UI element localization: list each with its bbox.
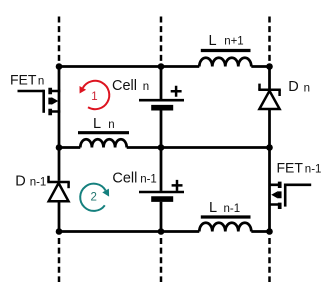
svg-text:1: 1 — [91, 91, 97, 103]
svg-text:FET: FET — [10, 72, 37, 88]
svg-text:2: 2 — [90, 192, 96, 204]
svg-text:FET: FET — [277, 159, 304, 175]
svg-text:n-1: n-1 — [30, 176, 47, 188]
svg-text:n-1: n-1 — [305, 163, 322, 175]
svg-text:n: n — [108, 119, 114, 131]
svg-text:Cell: Cell — [112, 171, 137, 187]
svg-text:n: n — [38, 76, 44, 88]
svg-text:n+1: n+1 — [224, 36, 244, 48]
svg-text:D: D — [15, 173, 25, 189]
svg-text:Cell: Cell — [112, 78, 137, 94]
svg-text:L: L — [209, 200, 217, 216]
svg-text:n-1: n-1 — [224, 203, 241, 215]
svg-text:n: n — [304, 82, 310, 94]
svg-text:L: L — [209, 33, 217, 49]
svg-text:L: L — [93, 116, 101, 132]
svg-text:n: n — [143, 81, 149, 93]
svg-text:D: D — [288, 79, 298, 95]
svg-text:n-1: n-1 — [140, 174, 157, 186]
